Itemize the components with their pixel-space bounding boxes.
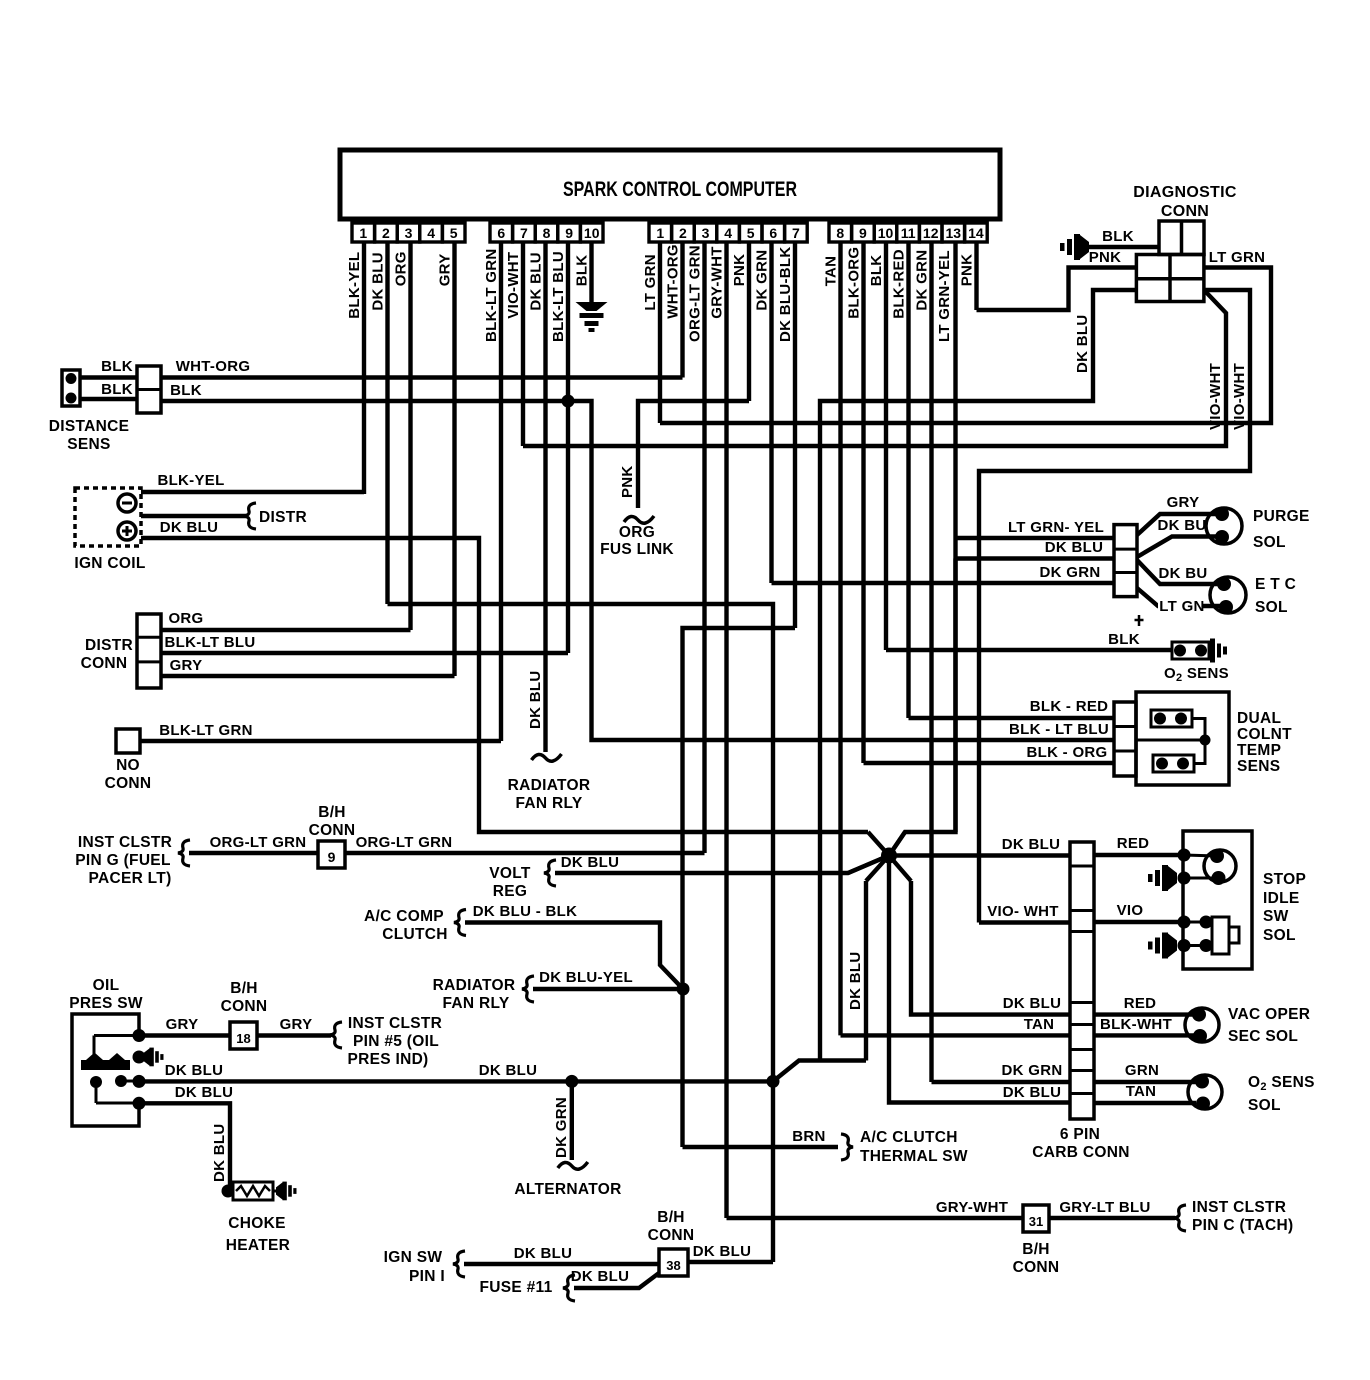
- svg-text:DK BLU: DK BLU: [479, 1062, 537, 1079]
- svg-text:DK GRN: DK GRN: [914, 250, 931, 311]
- label OIL PRES SW: [69, 977, 143, 1012]
- svg-text:LT GRN: LT GRN: [642, 254, 659, 311]
- svg-text:IDLE: IDLE: [1263, 890, 1300, 907]
- svg-text:DK GRN: DK GRN: [1040, 564, 1101, 581]
- svg-text:CONN: CONN: [1013, 1259, 1060, 1276]
- svg-text:HEATER: HEATER: [226, 1237, 290, 1254]
- wire DK BLU to choke heater: [139, 1084, 233, 1191]
- svg-text:1: 1: [359, 225, 367, 241]
- svg-text:VIO-WHT: VIO-WHT: [1207, 363, 1224, 430]
- label A/C CLUTCH THERMAL SW: [860, 1129, 968, 1165]
- wire LT GN to etc sol: [1137, 588, 1222, 615]
- svg-text:SEC SOL: SEC SOL: [1228, 1028, 1298, 1045]
- ground below pin10: [576, 302, 608, 332]
- svg-text:OIL: OIL: [93, 977, 120, 994]
- svg-text:13: 13: [946, 225, 962, 241]
- svg-text:TAN: TAN: [823, 256, 840, 287]
- label ALTERNATOR: [514, 1181, 621, 1198]
- wire pin3 ORG drop: [408, 242, 412, 630]
- svg-text:A/C COMP: A/C COMP: [364, 908, 444, 925]
- svg-text:THERMAL SW: THERMAL SW: [860, 1148, 968, 1165]
- svg-text:GRY: GRY: [437, 253, 454, 286]
- wire PNK pin5g3 to fus link: [619, 401, 749, 508]
- svg-text:BRN: BRN: [792, 1128, 825, 1145]
- wire DK BLU-BLK a/c comp clutch: [465, 903, 683, 989]
- label RADIATOR FAN RLY upper: [508, 777, 591, 812]
- label VOLT REG: [489, 865, 531, 900]
- svg-text:BLK-LT GRN: BLK-LT GRN: [159, 722, 253, 739]
- wire TAN o2 sens sol: [1094, 1083, 1196, 1103]
- wire pin10g4 BLK drop: [884, 242, 888, 650]
- ground at diagnostic conn BLK: [1060, 234, 1089, 260]
- svg-text:DK BLU - BLK: DK BLU - BLK: [473, 903, 577, 920]
- wire DK BLU diag conn: [820, 290, 1136, 1061]
- distance sensor symbol: [62, 370, 80, 406]
- arrow inst clstr pin5: [330, 1022, 342, 1048]
- svg-text:7: 7: [792, 225, 800, 241]
- label DK GRN alternator: [553, 1097, 570, 1158]
- arrow a/c clutch thermal sw: [841, 1134, 853, 1160]
- wire DK BLU-YEL radiator fan rly: [533, 969, 683, 989]
- svg-text:DK BLU: DK BLU: [514, 1245, 572, 1262]
- wire BLK-YEL ign coil to pin1: [141, 472, 364, 492]
- wire RED vac oper: [1094, 995, 1196, 1015]
- svg-text:VIO-WHT: VIO-WHT: [1231, 363, 1248, 430]
- wire ORG distr conn to pin3: [161, 610, 411, 630]
- wire DK GRN carb5: [932, 1062, 1071, 1082]
- no-connection box: [116, 729, 140, 753]
- wire BLK-LT GRN no conn to pin6: [140, 722, 501, 741]
- junction dot a/c fan rly: [677, 983, 690, 996]
- svg-text:IGN COIL: IGN COIL: [74, 555, 145, 572]
- wire PNK diag conn to pin14: [977, 249, 1137, 310]
- arrow DISTR: [244, 503, 256, 529]
- svg-text:RED: RED: [1117, 835, 1150, 852]
- svg-text:FAN RLY: FAN RLY: [516, 795, 583, 812]
- svg-text:SPARK CONTROL COMPUTER: SPARK CONTROL COMPUTER: [563, 178, 797, 201]
- svg-text:GRY: GRY: [1167, 494, 1200, 511]
- wire diag jog to x820: [773, 1061, 866, 1082]
- svg-text:REG: REG: [493, 883, 528, 900]
- wire GRY oil pres to BH18: [139, 1016, 230, 1036]
- label DK BLU fan rly: [527, 671, 544, 729]
- arrow ign sw: [453, 1251, 465, 1277]
- ignition coil symbol: [75, 488, 141, 546]
- wire pin13 LT GRN-YEL drop: [953, 242, 957, 832]
- svg-text:WHT-ORG: WHT-ORG: [665, 244, 682, 319]
- star junction DK BLU: [848, 832, 911, 881]
- connector pins 1-5 group1: [352, 223, 465, 242]
- svg-text:VAC OPER: VAC OPER: [1228, 1006, 1310, 1023]
- svg-text:14: 14: [968, 225, 984, 241]
- svg-text:BLK-ORG: BLK-ORG: [846, 247, 863, 319]
- svg-text:PURGE: PURGE: [1253, 508, 1310, 525]
- wire DK GRN alternator drop: [558, 1081, 588, 1169]
- connector pins 1-7 group3: [649, 223, 807, 242]
- wire pin8g4 TAN drop: [838, 242, 842, 1035]
- svg-text:TEMP: TEMP: [1237, 742, 1281, 759]
- wire LT GRN diag conn: [660, 249, 1271, 423]
- connector pins 8-14 group4: [829, 223, 987, 242]
- pin wire colour labels (rotated): [346, 244, 976, 342]
- wire pin10 BLK ground stub: [589, 242, 593, 302]
- svg-text:10: 10: [878, 225, 894, 241]
- svg-text:BLK: BLK: [101, 358, 133, 375]
- svg-text:O2 SENS: O2 SENS: [1164, 665, 1229, 684]
- label INST CLSTR PIN C (TACH): [1192, 1199, 1293, 1234]
- svg-text:BLK: BLK: [868, 255, 885, 287]
- svg-text:GRY-WHT: GRY-WHT: [936, 1199, 1008, 1216]
- purge/etc connector block: [1114, 525, 1137, 597]
- label BLK-LT BLU wire: [1009, 721, 1109, 738]
- vac oper sec solenoid: [1185, 1008, 1219, 1043]
- svg-text:DUAL: DUAL: [1237, 710, 1281, 727]
- svg-text:BLK - ORG: BLK - ORG: [1026, 744, 1107, 761]
- stop idle box: [1183, 831, 1252, 969]
- diagnostic connector body: [1136, 221, 1204, 302]
- arrow to inst clstr pin G: [178, 840, 190, 866]
- svg-text:COLNT: COLNT: [1237, 726, 1292, 743]
- arrow inst clstr pin C: [1174, 1205, 1186, 1231]
- label DK BLU choke drop: [211, 1124, 228, 1182]
- svg-text:SOL: SOL: [1263, 927, 1296, 944]
- label O2 SENS SOL: [1248, 1074, 1315, 1114]
- label ETC SOL: [1255, 576, 1296, 616]
- svg-text:SOL: SOL: [1255, 599, 1288, 616]
- svg-text:11: 11: [901, 225, 916, 241]
- wire VIO-WHT 2 diag conn: [979, 290, 1250, 923]
- ground stop idle top: [1148, 865, 1177, 891]
- wire BLK distance sens long: [161, 382, 1114, 740]
- svg-text:INST CLSTR: INST CLSTR: [78, 834, 172, 851]
- label DISTR CONN: [81, 637, 133, 672]
- svg-text:WHT-ORG: WHT-ORG: [176, 358, 251, 375]
- svg-text:9: 9: [328, 849, 336, 865]
- svg-text:DK BLU: DK BLU: [528, 252, 545, 310]
- svg-text:RADIATOR: RADIATOR: [433, 977, 516, 994]
- label B/H CONN 38: [648, 1209, 695, 1244]
- wire VIO-WHT carb2: [979, 903, 1070, 923]
- svg-text:DISTR: DISTR: [85, 637, 133, 654]
- wire VIO carb to stop idle: [1094, 902, 1183, 922]
- wire pin5g3 PNK drop: [747, 242, 751, 401]
- label FUSE 11: [479, 1279, 552, 1296]
- junction dot main DK BLU: [767, 1075, 780, 1088]
- ground choke heater: [273, 1182, 297, 1201]
- svg-text:5: 5: [450, 225, 458, 241]
- svg-text:CONN: CONN: [81, 655, 128, 672]
- svg-text:GRY: GRY: [166, 1016, 199, 1033]
- wire pin6 BLK-LT GRN drop: [499, 242, 503, 741]
- o2 sens solenoid: [1188, 1075, 1222, 1111]
- wire pin7g3 DK BLU-BLK drop: [793, 242, 797, 628]
- wire BLK pin10g4 to o2 sens: [886, 631, 1172, 650]
- svg-text:DK BLU: DK BLU: [693, 1243, 751, 1260]
- svg-text:3: 3: [702, 225, 710, 241]
- wire DK BU to etc sol: [1137, 560, 1222, 584]
- svg-text:2: 2: [679, 225, 687, 241]
- diagnostic connector label: [1133, 184, 1237, 220]
- wire DK BLU ign coil: [141, 519, 868, 832]
- svg-text:B/H: B/H: [230, 980, 258, 997]
- wire LT GRN-YEL pin13: [956, 519, 1115, 538]
- ground o2 sens: [1210, 639, 1227, 663]
- svg-text:TAN: TAN: [1024, 1016, 1055, 1033]
- spark control computer box U1: [340, 150, 1000, 219]
- svg-text:PNK: PNK: [959, 254, 976, 287]
- label IGN COIL: [74, 555, 145, 572]
- wire vertical x772 main DK BLU: [771, 628, 775, 1262]
- svg-text:BLK: BLK: [170, 382, 202, 399]
- svg-text:B/H: B/H: [318, 804, 346, 821]
- wires BLK distance sens to conn: [80, 358, 137, 399]
- svg-text:DK BLU: DK BLU: [561, 854, 619, 871]
- svg-text:VOLT: VOLT: [489, 865, 531, 882]
- svg-text:BLK - LT BLU: BLK - LT BLU: [1009, 721, 1109, 738]
- svg-text:ORG: ORG: [619, 524, 655, 541]
- wire GRY-LT BLU BH31 to tach: [1049, 1199, 1175, 1218]
- svg-text:SW: SW: [1263, 908, 1289, 925]
- svg-text:BLK-LT BLU: BLK-LT BLU: [550, 251, 567, 342]
- wire pin2 DK BLU drop: [385, 242, 389, 604]
- svg-text:INST CLSTR: INST CLSTR: [348, 1015, 442, 1032]
- svg-text:DK BLU: DK BLU: [211, 1124, 228, 1182]
- junction dot BLK/pin9: [562, 395, 575, 408]
- svg-text:BLK-LT BLU: BLK-LT BLU: [164, 634, 255, 651]
- svg-text:SENS: SENS: [1237, 758, 1280, 775]
- etc solenoid: [1210, 577, 1246, 614]
- svg-text:DK BLU: DK BLU: [1074, 315, 1091, 373]
- label B/H CONN 18: [221, 980, 268, 1015]
- arrow a/c comp clutch: [454, 910, 466, 936]
- svg-text:PNK: PNK: [1089, 249, 1122, 266]
- svg-text:DK BU: DK BU: [1159, 565, 1208, 582]
- svg-text:DK GRN: DK GRN: [754, 250, 771, 311]
- wire pin11 BLK-RED drop: [906, 242, 910, 718]
- svg-text:7: 7: [520, 225, 528, 241]
- wire BLK-WHT vac oper: [1094, 1016, 1196, 1035]
- wire TAN carb4: [841, 1016, 1071, 1035]
- wire DK BLU oil pres long: [139, 1062, 773, 1081]
- svg-text:GRY-WHT: GRY-WHT: [709, 246, 726, 318]
- svg-text:PIN C (TACH): PIN C (TACH): [1192, 1217, 1293, 1234]
- svg-text:DK BLU: DK BLU: [1003, 995, 1061, 1012]
- svg-text:ALTERNATOR: ALTERNATOR: [514, 1181, 621, 1198]
- svg-text:SENS: SENS: [67, 436, 110, 453]
- wire DK BLU fuse to BH38: [571, 1268, 659, 1288]
- svg-text:DK BLU: DK BLU: [527, 671, 544, 729]
- wire pin8 DK BLU drop: [532, 242, 562, 761]
- wire WHT-ORG distance sens to pin2g3: [161, 358, 683, 378]
- wire pin14 PNK drop: [974, 242, 978, 310]
- b/h connector 31 box: [1023, 1205, 1049, 1232]
- svg-text:9: 9: [565, 225, 573, 241]
- oil pres switch internals: [81, 1036, 139, 1104]
- wire BLK-ORG pin9g4: [864, 744, 1115, 763]
- svg-text:SOL: SOL: [1253, 534, 1286, 551]
- svg-text:GRY-LT BLU: GRY-LT BLU: [1059, 1199, 1150, 1216]
- label INST CLSTR PIN G: [75, 834, 172, 887]
- label DK BLU star branch: [847, 952, 864, 1010]
- wire DK BLU ign sw to BH38: [464, 1245, 659, 1264]
- 6 pin carb connector strip: [1070, 842, 1094, 1119]
- label PURGE SOL: [1253, 508, 1310, 551]
- svg-text:ORG: ORG: [168, 610, 203, 627]
- svg-text:VIO: VIO: [1117, 902, 1144, 919]
- svg-text:6: 6: [497, 225, 505, 241]
- svg-text:BLK-YEL: BLK-YEL: [157, 472, 224, 489]
- svg-text:TAN: TAN: [1126, 1083, 1157, 1100]
- purge solenoid: [1206, 507, 1242, 544]
- svg-text:CONN: CONN: [1161, 203, 1209, 220]
- wire ORG-LT GRN left of BH9: [189, 834, 318, 853]
- label INST CLSTR PIN 5: [347, 1015, 442, 1068]
- junction dot alternator branch: [565, 1075, 578, 1088]
- svg-text:BLK: BLK: [1108, 631, 1140, 648]
- svg-text:CARB CONN: CARB CONN: [1032, 1144, 1129, 1161]
- svg-text:DK BLU: DK BLU: [847, 952, 864, 1010]
- svg-text:DIAGNOSTIC: DIAGNOSTIC: [1133, 184, 1237, 201]
- label IGN SW PIN I: [384, 1249, 445, 1285]
- svg-text:DK BLU: DK BLU: [571, 1268, 629, 1285]
- junction dots oil pres sw: [133, 1029, 146, 1110]
- wire pin9 BLK-LT BLU drop: [566, 242, 570, 653]
- svg-text:BLK: BLK: [101, 381, 133, 398]
- wire GRY to purge sol: [1137, 494, 1222, 535]
- label B/H CONN 31: [1013, 1241, 1060, 1276]
- svg-text:DK BLU: DK BLU: [1002, 836, 1060, 853]
- svg-text:2: 2: [382, 225, 390, 241]
- svg-text:VIO- WHT: VIO- WHT: [987, 903, 1059, 920]
- svg-text:DK BLU: DK BLU: [165, 1062, 223, 1079]
- svg-text:DISTR: DISTR: [259, 509, 307, 526]
- svg-text:LT GRN-YEL: LT GRN-YEL: [936, 250, 953, 342]
- svg-text:12: 12: [923, 225, 939, 241]
- label VIO-WHT 2: [1231, 363, 1248, 430]
- svg-text:BLK-YEL: BLK-YEL: [346, 252, 363, 319]
- label DK BLU carb1: [1002, 836, 1060, 853]
- svg-text:FAN RLY: FAN RLY: [443, 995, 510, 1012]
- svg-text:8: 8: [543, 225, 551, 241]
- wire pin2g3 WHT-ORG drop: [680, 242, 684, 378]
- svg-text:DISTANCE: DISTANCE: [49, 418, 129, 435]
- wire RED carb to stop idle: [1094, 835, 1183, 855]
- wire BLK-RED pin11: [909, 698, 1115, 718]
- svg-text:RED: RED: [1124, 995, 1157, 1012]
- oil pressure switch box: [72, 1014, 139, 1126]
- stop idle top circle: [1178, 849, 1237, 886]
- svg-text:BLK: BLK: [1102, 228, 1134, 245]
- arrow fuse 11: [563, 1275, 575, 1301]
- svg-text:6: 6: [769, 225, 777, 241]
- svg-text:B/H: B/H: [1022, 1241, 1050, 1258]
- wire DK BLU BH38 up: [688, 1243, 773, 1262]
- stop idle lower switch: [1178, 916, 1240, 955]
- wire BLK to diagnostic conn: [1089, 228, 1159, 247]
- svg-text:CHOKE: CHOKE: [228, 1215, 285, 1232]
- svg-text:10: 10: [584, 225, 600, 241]
- svg-text:FUS LINK: FUS LINK: [600, 541, 674, 558]
- svg-text:PRES IND): PRES IND): [347, 1051, 428, 1068]
- dual coolant temp sens connector: [1114, 702, 1136, 776]
- svg-text:BLK - RED: BLK - RED: [1030, 698, 1109, 715]
- svg-text:DK BLU-YEL: DK BLU-YEL: [539, 969, 633, 986]
- svg-text:9: 9: [859, 225, 867, 241]
- svg-text:CLUTCH: CLUTCH: [382, 926, 448, 943]
- label CHOKE HEATER: [226, 1215, 290, 1254]
- wire DK GRN etc: [772, 564, 1115, 583]
- label RADIATOR FAN RLY lower: [433, 977, 516, 1012]
- wire pin12 DK GRN drop: [929, 242, 933, 1082]
- wire pin4g3 GRY-WHT drop: [724, 242, 728, 1218]
- svg-text:BLK-RED: BLK-RED: [891, 249, 908, 319]
- svg-text:5: 5: [747, 225, 755, 241]
- wire pin5 GRY drop: [452, 242, 456, 676]
- svg-text:A/C CLUTCH: A/C CLUTCH: [860, 1129, 958, 1146]
- svg-text:FUSE #11: FUSE #11: [479, 1279, 552, 1296]
- b/h connector 18 box: [230, 1022, 257, 1049]
- o2 sensor connector: [1172, 642, 1209, 659]
- label DUAL COLNT TEMP SENS: [1237, 710, 1292, 775]
- label DK BLU diag vertical: [1074, 315, 1091, 373]
- svg-text:PIN I: PIN I: [409, 1268, 445, 1285]
- dual coolant temp sens box: [1136, 692, 1229, 785]
- wire DK BLU purge: [956, 539, 1115, 559]
- svg-text:ORG-LT GRN: ORG-LT GRN: [210, 834, 307, 851]
- svg-text:3: 3: [405, 225, 413, 241]
- wire pin6g3 DK GRN drop: [769, 242, 773, 583]
- svg-text:GRY: GRY: [170, 657, 203, 674]
- wire BLK-LT BLU distr conn to pin9: [161, 634, 568, 653]
- svg-text:LT GRN: LT GRN: [1209, 249, 1266, 266]
- temp sens inner contacts: [1136, 710, 1211, 772]
- wire pin1 BLK-YEL drop: [362, 242, 366, 494]
- arrow radiator fan rly: [522, 976, 534, 1002]
- choke heater resistor: [222, 1182, 274, 1200]
- label VAC OPER SEC SOL: [1228, 1006, 1310, 1045]
- svg-text:PNK: PNK: [619, 465, 636, 498]
- svg-text:PRES SW: PRES SW: [69, 995, 143, 1012]
- squiggle org fus link: [624, 516, 654, 523]
- svg-text:PIN #5 (OIL: PIN #5 (OIL: [353, 1033, 439, 1050]
- label B/H CONN 9: [309, 804, 356, 839]
- svg-text:8: 8: [836, 225, 844, 241]
- wire VIO-WHT 1 diag conn: [523, 290, 1226, 446]
- label DISTANCE SENS: [49, 418, 129, 453]
- svg-text:IGN SW: IGN SW: [384, 1249, 443, 1266]
- svg-text:NO: NO: [116, 757, 140, 774]
- svg-text:PNK: PNK: [731, 254, 748, 287]
- wire pin3g3 ORG-LT GRN drop: [702, 242, 706, 853]
- svg-text:ORG: ORG: [393, 251, 410, 286]
- svg-text:BLK-LT GRN: BLK-LT GRN: [483, 248, 500, 342]
- svg-text:ORG-LT GRN: ORG-LT GRN: [356, 834, 453, 851]
- label STOP IDLE SW SOL: [1263, 871, 1306, 944]
- svg-text:DK BU: DK BU: [1158, 517, 1207, 534]
- svg-text:4: 4: [724, 225, 732, 241]
- svg-text:BLK-WHT: BLK-WHT: [1100, 1016, 1172, 1033]
- svg-text:CONN: CONN: [221, 998, 268, 1015]
- svg-text:BLK: BLK: [574, 255, 591, 287]
- wire pin1g3 LT GRN drop: [658, 242, 662, 423]
- svg-text:DK BLU: DK BLU: [370, 252, 387, 310]
- svg-text:O2 SENS: O2 SENS: [1248, 1074, 1315, 1093]
- wire jog pin2/pin7 to BRN vertical: [388, 604, 774, 1147]
- svg-text:DK BLU: DK BLU: [1045, 539, 1103, 556]
- svg-text:E T C: E T C: [1255, 576, 1296, 593]
- svg-text:B/H: B/H: [657, 1209, 685, 1226]
- b/h connector 38 box: [659, 1249, 688, 1276]
